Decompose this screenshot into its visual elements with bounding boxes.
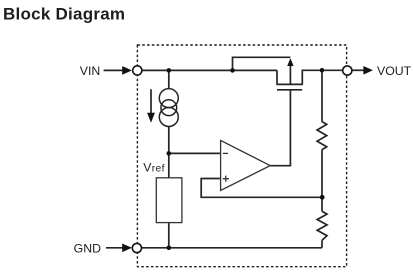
svg-text:GND: GND [74, 241, 101, 255]
svg-text:VIN: VIN [80, 64, 101, 78]
svg-text:Block Diagram: Block Diagram [3, 5, 125, 24]
svg-text:VOUT: VOUT [377, 64, 412, 78]
svg-text:ref: ref [152, 164, 165, 175]
